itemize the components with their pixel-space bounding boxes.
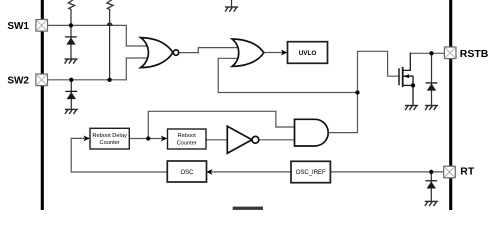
svg-text:RT: RT bbox=[460, 165, 475, 177]
svg-text:Reboot: Reboot bbox=[178, 133, 197, 139]
svg-text:Counter: Counter bbox=[177, 140, 197, 146]
svg-text:Reboot Delay: Reboot Delay bbox=[92, 133, 127, 139]
svg-text:SW1: SW1 bbox=[7, 21, 29, 32]
svg-text:RSTB: RSTB bbox=[460, 48, 489, 60]
svg-text:SW2: SW2 bbox=[7, 76, 29, 87]
svg-text:UVLO: UVLO bbox=[299, 50, 317, 57]
svg-text:Counter: Counter bbox=[99, 140, 119, 146]
svg-text:OSC_IREF: OSC_IREF bbox=[296, 170, 326, 176]
svg-text:OSC: OSC bbox=[180, 170, 194, 176]
